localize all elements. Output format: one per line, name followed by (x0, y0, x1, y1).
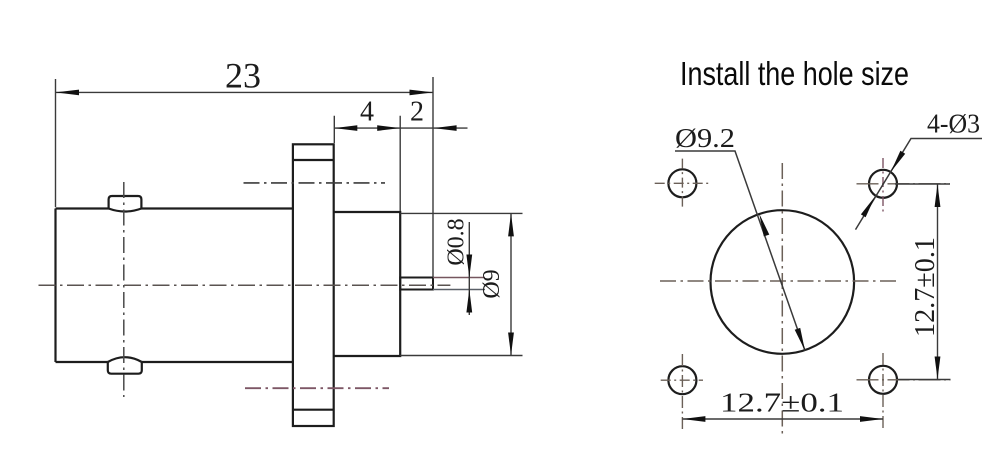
lower flange centerline (245, 387, 389, 389)
hole bottom-right crosshair (857, 379, 951, 381)
center pin (400, 278, 433, 290)
bottom dim arrows (682, 416, 883, 422)
connector body outline (56, 209, 293, 363)
circle vertical centerline (781, 163, 783, 437)
pin dia arrows (466, 255, 472, 313)
svg-text:Ø0.8: Ø0.8 (444, 218, 470, 265)
label 4-d3 leader (856, 139, 983, 230)
dim 4/2 line (334, 127, 467, 129)
bayonet lug bottom (108, 357, 142, 374)
hole top-right (869, 170, 897, 198)
label 9.2 leader (675, 151, 805, 351)
right dim arrows (935, 184, 941, 380)
mounting circle (711, 210, 855, 354)
body dia extension lines (400, 213, 522, 355)
hole top-left (668, 169, 696, 197)
main axis centerline (39, 284, 451, 286)
pin dia dim line (468, 222, 470, 315)
svg-text:Install the hole size: Install the hole size (680, 55, 909, 92)
svg-text:4-Ø3: 4-Ø3 (927, 109, 980, 139)
lug centerline (123, 182, 125, 397)
bottom dim line (682, 418, 883, 420)
hole top-right crosshair (857, 183, 951, 185)
flange (293, 144, 334, 426)
dim 23 extension lines (56, 77, 434, 277)
hole bottom-left (668, 366, 696, 394)
label 4-d3 arrows (861, 151, 905, 218)
right dim extension lines (895, 184, 951, 380)
hole top-left crosshair (655, 159, 710, 210)
rear body (334, 212, 401, 356)
dim 2 arrow (434, 125, 457, 131)
label 9.2 arrows (759, 214, 805, 351)
svg-text:12.7±0.1: 12.7±0.1 (720, 388, 844, 418)
upper flange centerline (244, 182, 386, 184)
body dia arrows (508, 213, 514, 355)
pin dia extension lines (433, 277, 485, 279)
dim 4/2 extension lines (334, 116, 400, 211)
hole bottom-right (869, 366, 897, 394)
circle horizontal centerline (660, 280, 898, 282)
dim 23 arrows (56, 90, 434, 96)
svg-text:Ø9: Ø9 (479, 269, 505, 298)
dim 23 line (56, 91, 434, 93)
bayonet lug top (109, 196, 142, 212)
body dia dim line (510, 213, 512, 355)
svg-text:4: 4 (360, 97, 374, 128)
svg-text:Ø9.2: Ø9.2 (675, 123, 735, 153)
svg-text:12.7±0.1: 12.7±0.1 (910, 237, 941, 337)
hole bottom-left crosshair (661, 379, 703, 381)
svg-text:23: 23 (225, 56, 261, 96)
right dim line (937, 184, 939, 380)
svg-text:2: 2 (410, 97, 424, 128)
dim 4 arrows (334, 125, 400, 131)
